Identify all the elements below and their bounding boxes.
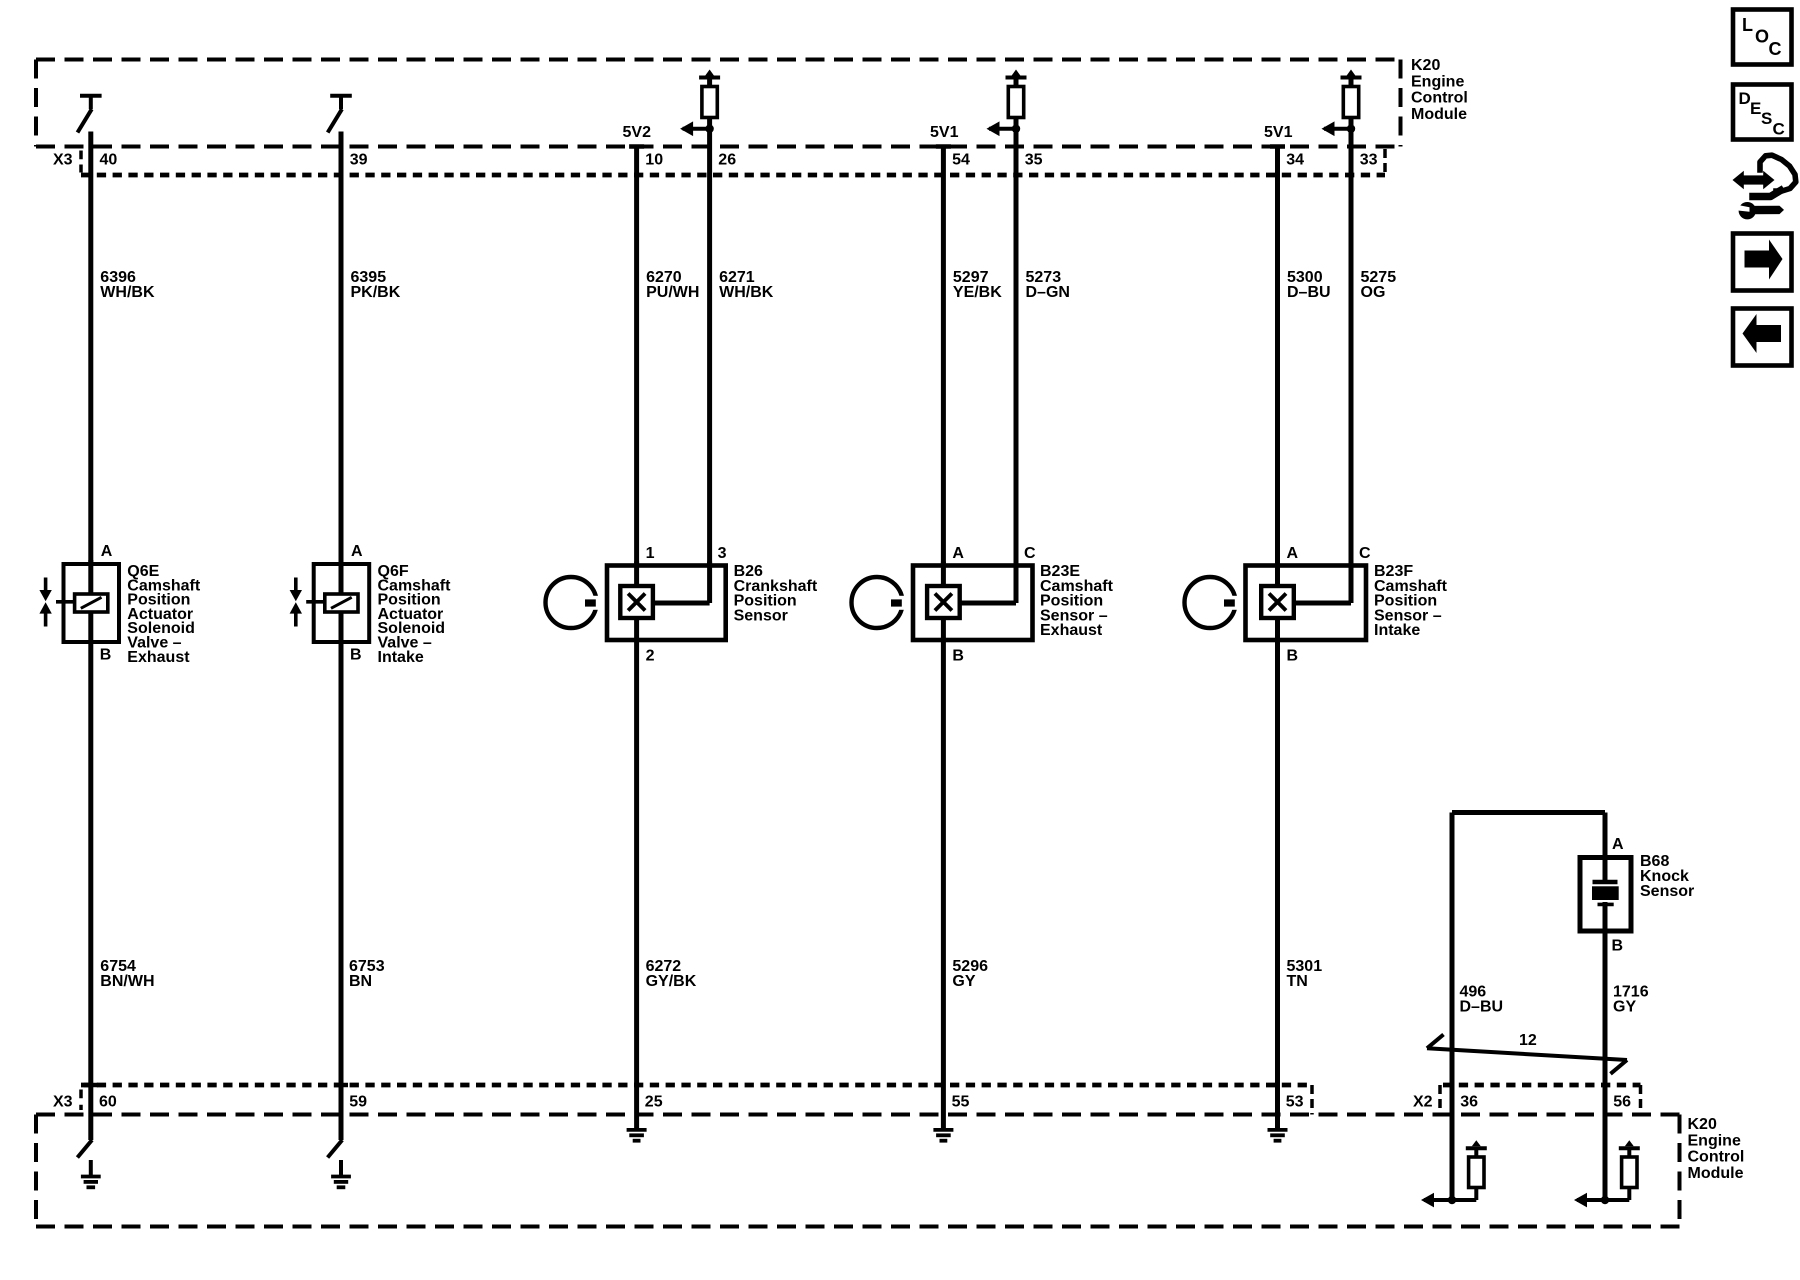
- svg-text:TN: TN: [1287, 973, 1308, 990]
- svg-text:C: C: [1359, 545, 1371, 562]
- svg-text:S: S: [1761, 109, 1772, 128]
- svg-text:36: 36: [1460, 1094, 1478, 1111]
- svg-text:33: 33: [1360, 152, 1378, 169]
- svg-text:BN: BN: [349, 973, 372, 990]
- svg-text:Sensor: Sensor: [1640, 883, 1694, 900]
- svg-text:2: 2: [646, 648, 655, 665]
- svg-text:L: L: [1742, 15, 1753, 35]
- svg-text:Intake: Intake: [378, 649, 424, 666]
- svg-text:A: A: [101, 543, 113, 560]
- svg-text:Exhaust: Exhaust: [1040, 622, 1103, 639]
- svg-text:D–BU: D–BU: [1287, 284, 1331, 301]
- svg-text:54: 54: [952, 152, 970, 169]
- svg-text:60: 60: [99, 1094, 117, 1111]
- svg-text:Engine: Engine: [1688, 1132, 1741, 1149]
- svg-text:Sensor: Sensor: [734, 607, 788, 624]
- svg-text:B: B: [1612, 938, 1624, 955]
- svg-text:E: E: [1750, 99, 1761, 118]
- svg-text:X3: X3: [53, 152, 73, 169]
- svg-text:GY: GY: [952, 973, 975, 990]
- svg-text:34: 34: [1286, 152, 1304, 169]
- svg-text:Intake: Intake: [1374, 622, 1420, 639]
- svg-text:A: A: [351, 543, 363, 560]
- svg-text:PU/WH: PU/WH: [646, 284, 699, 301]
- svg-text:D: D: [1739, 89, 1751, 108]
- svg-text:C: C: [1024, 545, 1036, 562]
- svg-text:PK/BK: PK/BK: [351, 284, 401, 301]
- svg-text:12: 12: [1519, 1032, 1537, 1049]
- svg-text:Engine: Engine: [1411, 73, 1464, 90]
- svg-text:25: 25: [645, 1094, 663, 1111]
- svg-text:BN/WH: BN/WH: [100, 973, 154, 990]
- svg-text:3: 3: [718, 545, 727, 562]
- svg-text:A: A: [1287, 545, 1299, 562]
- svg-text:40: 40: [100, 152, 118, 169]
- svg-text:C: C: [1773, 120, 1785, 139]
- svg-text:O: O: [1755, 27, 1769, 47]
- svg-text:10: 10: [645, 152, 663, 169]
- svg-text:A: A: [1612, 836, 1624, 853]
- svg-text:B: B: [350, 647, 362, 664]
- svg-text:B: B: [100, 647, 112, 664]
- svg-text:B: B: [1287, 648, 1299, 665]
- svg-text:B: B: [952, 648, 964, 665]
- svg-text:C: C: [1769, 39, 1782, 59]
- svg-text:5V1: 5V1: [930, 124, 959, 141]
- svg-text:GY: GY: [1613, 998, 1636, 1015]
- svg-text:1: 1: [646, 545, 655, 562]
- svg-text:X2: X2: [1413, 1094, 1433, 1111]
- svg-text:X3: X3: [53, 1094, 73, 1111]
- svg-text:35: 35: [1025, 152, 1043, 169]
- svg-text:Module: Module: [1411, 106, 1467, 123]
- svg-text:26: 26: [718, 152, 736, 169]
- svg-text:WH/BK: WH/BK: [719, 284, 774, 301]
- svg-text:OG: OG: [1361, 284, 1386, 301]
- svg-text:59: 59: [349, 1094, 367, 1111]
- svg-text:WH/BK: WH/BK: [100, 284, 155, 301]
- svg-text:YE/BK: YE/BK: [953, 284, 1002, 301]
- svg-text:K20: K20: [1688, 1116, 1717, 1133]
- svg-text:GY/BK: GY/BK: [646, 973, 697, 990]
- svg-text:A: A: [952, 545, 964, 562]
- svg-text:39: 39: [350, 152, 368, 169]
- svg-text:Module: Module: [1688, 1165, 1744, 1182]
- svg-text:K20: K20: [1411, 57, 1440, 74]
- svg-text:D–GN: D–GN: [1026, 284, 1070, 301]
- svg-text:Exhaust: Exhaust: [127, 649, 190, 666]
- svg-text:Control: Control: [1411, 90, 1468, 107]
- svg-text:56: 56: [1613, 1094, 1631, 1111]
- svg-text:Control: Control: [1688, 1149, 1745, 1166]
- svg-text:55: 55: [952, 1094, 970, 1111]
- svg-text:5V2: 5V2: [623, 124, 652, 141]
- svg-text:53: 53: [1286, 1094, 1304, 1111]
- svg-text:5V1: 5V1: [1264, 124, 1293, 141]
- svg-text:D–BU: D–BU: [1460, 998, 1504, 1015]
